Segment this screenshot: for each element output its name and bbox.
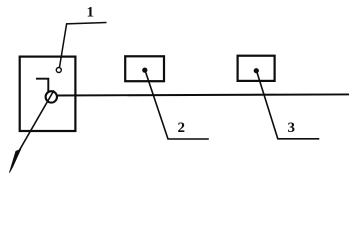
- main horizontal line (shaft/wire): [57, 94, 349, 95]
- housing box (large rectangle, component 1): [20, 57, 76, 131]
- pointer shaft diagonal line through circle: [18, 90, 54, 153]
- dot in component 2: [142, 68, 147, 73]
- leader line to label 2: [146, 72, 209, 139]
- leader line to label 1: [60, 23, 107, 68]
- component 3 rectangle: [238, 56, 275, 81]
- arrowhead (filled spike): [9, 149, 20, 172]
- svg-text:2: 2: [178, 120, 186, 136]
- leader terminator open circle for label 1: [56, 68, 61, 73]
- dial circle inside housing: [46, 91, 57, 102]
- leader line to label 3: [257, 72, 319, 138]
- svg-text:3: 3: [288, 120, 296, 136]
- component 2 rectangle: [125, 56, 164, 81]
- dot in component 3: [254, 68, 259, 73]
- svg-text:1: 1: [87, 4, 95, 20]
- bracket stem inside housing: [36, 79, 48, 93]
